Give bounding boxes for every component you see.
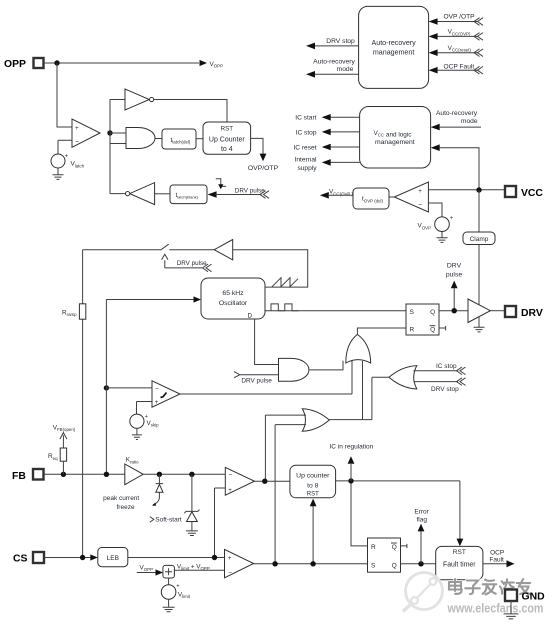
- svg-text:Fault: Fault: [489, 556, 504, 563]
- svg-text:OVP/OTP: OVP/OTP: [248, 165, 279, 172]
- svg-text:+: +: [418, 188, 422, 195]
- svg-text:DRV: DRV: [447, 262, 462, 269]
- svg-text:IC start: IC start: [295, 115, 316, 122]
- svg-text:Up counter: Up counter: [296, 473, 330, 480]
- svg-text:R: R: [410, 327, 415, 334]
- svg-text:DRV pulse: DRV pulse: [241, 378, 272, 385]
- svg-text:+: +: [450, 216, 454, 222]
- svg-text:R: R: [371, 544, 376, 551]
- svg-text:OPP: OPP: [4, 59, 26, 70]
- svg-text:RST: RST: [221, 125, 234, 132]
- svg-text:−: −: [155, 386, 159, 393]
- svg-text:RST: RST: [307, 492, 319, 498]
- svg-text:Q: Q: [392, 562, 397, 569]
- svg-text:S: S: [410, 309, 415, 316]
- svg-text:+: +: [155, 399, 159, 406]
- svg-text:−: −: [229, 472, 233, 479]
- svg-text:supply: supply: [297, 165, 317, 172]
- svg-text:RST: RST: [453, 549, 466, 556]
- svg-text:CS: CS: [13, 553, 28, 564]
- svg-text:Soft-start: Soft-start: [155, 517, 182, 524]
- svg-text:Oscillator: Oscillator: [219, 300, 248, 307]
- svg-text:−: −: [228, 570, 232, 577]
- svg-text:pulse: pulse: [446, 271, 462, 278]
- svg-text:management: management: [375, 139, 415, 146]
- svg-text:LEB: LEB: [107, 555, 119, 562]
- svg-text:+: +: [75, 125, 79, 132]
- svg-text:OVP /OTP: OVP /OTP: [444, 13, 476, 20]
- svg-text:DRV: DRV: [521, 308, 543, 319]
- svg-text:Auto-recovery: Auto-recovery: [313, 58, 355, 65]
- svg-text:www.elecfans.com: www.elecfans.com: [447, 602, 544, 616]
- svg-text:+: +: [176, 584, 180, 590]
- svg-text:−: −: [418, 202, 422, 209]
- svg-text:Q: Q: [430, 327, 435, 334]
- svg-text:VCC: VCC: [521, 188, 543, 199]
- svg-text:flag: flag: [417, 517, 428, 524]
- svg-text:Auto-recovery: Auto-recovery: [372, 39, 417, 47]
- svg-text:+: +: [228, 487, 232, 494]
- svg-text:Q: Q: [392, 544, 397, 551]
- svg-text:DRV stop: DRV stop: [431, 386, 459, 393]
- svg-text:D: D: [247, 312, 252, 319]
- svg-text:Q: Q: [430, 309, 435, 316]
- svg-text:OCP Fault: OCP Fault: [444, 64, 475, 71]
- svg-text:OCP: OCP: [490, 549, 504, 556]
- svg-text:Up Counter: Up Counter: [209, 137, 245, 144]
- svg-text:Internal: Internal: [295, 156, 318, 163]
- svg-text:to 8: to 8: [307, 482, 319, 489]
- svg-text:IC stop: IC stop: [296, 129, 317, 136]
- svg-text:+: +: [65, 154, 69, 160]
- svg-text:IC in regulation: IC in regulation: [330, 444, 374, 451]
- svg-text:+: +: [228, 555, 232, 562]
- svg-text:FB: FB: [12, 471, 26, 482]
- svg-text:GND: GND: [522, 591, 546, 602]
- svg-text:peak current: peak current: [103, 495, 139, 502]
- svg-text:DRV stop: DRV stop: [326, 38, 355, 45]
- svg-text:to 4: to 4: [221, 146, 233, 153]
- svg-text:mode: mode: [461, 118, 478, 125]
- svg-text:S: S: [371, 562, 376, 569]
- svg-text:IC reset: IC reset: [293, 145, 316, 152]
- svg-text:IC stop: IC stop: [436, 363, 457, 370]
- svg-text:DRV pulse: DRV pulse: [177, 260, 207, 267]
- svg-text:Fault timer: Fault timer: [443, 562, 476, 569]
- svg-text:Clamp: Clamp: [470, 236, 489, 243]
- svg-text:−: −: [75, 139, 79, 146]
- svg-text:freeze: freeze: [117, 504, 135, 511]
- svg-text:65 kHz: 65 kHz: [222, 290, 244, 297]
- svg-text:Auto-recovery: Auto-recovery: [436, 110, 478, 117]
- svg-text:mode: mode: [337, 66, 354, 73]
- svg-text:Error: Error: [414, 509, 429, 516]
- svg-text:management: management: [373, 48, 414, 56]
- svg-text:DRV pulse: DRV pulse: [235, 187, 265, 194]
